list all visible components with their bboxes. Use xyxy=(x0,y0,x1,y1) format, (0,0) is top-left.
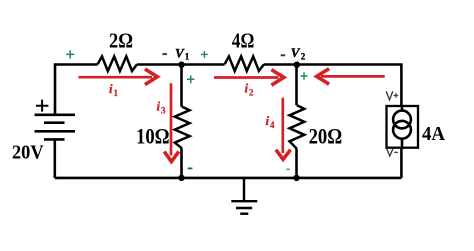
svg-text:20V: 20V xyxy=(12,143,44,164)
current arrow i2 xyxy=(214,70,284,86)
current source I1 4A box and circles xyxy=(387,106,419,148)
ground xyxy=(231,178,257,214)
resistor R2 4-ohm xyxy=(225,56,264,71)
junction node V1 branch bottom xyxy=(178,175,184,181)
svg-text:V: V xyxy=(291,45,301,60)
polarity minus dark at 4-ohm right xyxy=(281,54,286,56)
wire battery minus to bottom-left corner xyxy=(53,139,56,178)
current arrow i3 xyxy=(164,83,179,161)
wire V2 to 20-ohm xyxy=(295,65,298,106)
polarity plus green at 20-ohm top xyxy=(300,72,307,79)
current arrow from source pointing left xyxy=(317,69,385,85)
wire 2-ohm to node V1 xyxy=(137,63,181,66)
wire node V2 to top-right corner xyxy=(297,65,402,107)
resistor R4 20-ohm xyxy=(290,105,305,149)
svg-text:2Ω: 2Ω xyxy=(109,29,133,53)
current label i4 xyxy=(266,113,276,130)
battery plus polarity mark xyxy=(36,100,48,112)
value label 10-ohm xyxy=(136,124,170,149)
value label 4A xyxy=(422,123,446,145)
wire node V1 to 4-ohm xyxy=(182,63,225,66)
svg-text:i: i xyxy=(109,81,113,96)
polarity plus green at 2-ohm left xyxy=(66,50,74,58)
pin label V- xyxy=(387,148,398,156)
polarity plus green at 4-ohm left xyxy=(201,51,208,58)
value label 20-ohm xyxy=(309,124,343,149)
polarity minus green at 20-ohm bottom xyxy=(286,168,290,170)
svg-text:20Ω: 20Ω xyxy=(309,124,343,149)
wire V1 to 10-ohm xyxy=(180,65,183,107)
wire top-left segment (battery + to 2-ohm) xyxy=(55,65,98,114)
svg-text:i: i xyxy=(245,81,249,96)
svg-text:2: 2 xyxy=(301,51,306,61)
current arrow i1 xyxy=(79,69,158,85)
wire current source to bottom-right corner xyxy=(400,148,403,178)
svg-text:1: 1 xyxy=(114,88,119,98)
value label 2-ohm xyxy=(109,29,133,53)
svg-text:i: i xyxy=(266,113,270,128)
value label 4-ohm xyxy=(232,29,255,53)
node V2 xyxy=(294,61,300,67)
wire bottom rail xyxy=(55,177,402,180)
polarity plus green at 10-ohm top xyxy=(187,75,194,83)
polarity minus green at 10-ohm bottom xyxy=(188,167,193,169)
current label i1 xyxy=(109,81,119,98)
current arrow i4 xyxy=(276,98,291,160)
svg-text:3: 3 xyxy=(161,106,166,116)
svg-text:4Ω: 4Ω xyxy=(232,29,255,53)
resistor R1 2-ohm xyxy=(98,56,138,71)
svg-text:i: i xyxy=(157,99,161,114)
pin label V+ xyxy=(386,91,398,100)
svg-text:1: 1 xyxy=(185,51,190,61)
wire 20-ohm to bottom rail xyxy=(295,149,298,178)
voltage source 20V battery xyxy=(35,115,76,140)
resistor R3 10-ohm xyxy=(175,107,190,149)
svg-text:4A: 4A xyxy=(422,123,446,145)
svg-text:2: 2 xyxy=(249,88,254,98)
svg-text:V: V xyxy=(175,46,185,61)
node label V1 xyxy=(175,46,190,62)
value label 20V xyxy=(12,143,44,164)
current label i2 xyxy=(245,81,255,98)
polarity minus dark at 2-ohm right xyxy=(162,53,167,55)
junction node V2 branch bottom xyxy=(293,175,299,181)
svg-text:4: 4 xyxy=(270,120,275,130)
node V1 xyxy=(178,61,184,67)
wire 4-ohm to node V2 xyxy=(264,63,297,66)
svg-text:10Ω: 10Ω xyxy=(136,124,170,149)
node label V2 xyxy=(291,45,306,61)
wire 10-ohm to bottom rail xyxy=(180,148,183,178)
current label i3 xyxy=(157,99,167,116)
